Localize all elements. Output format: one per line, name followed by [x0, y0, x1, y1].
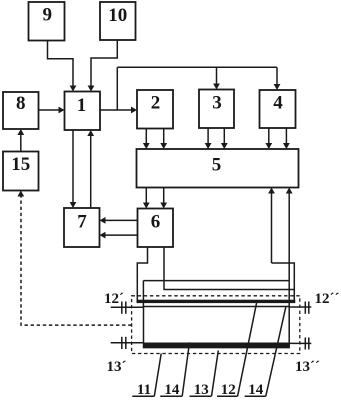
svg-text:2: 2	[151, 93, 161, 114]
dashed feedback line cell to 15	[21, 194, 132, 325]
leader 14 left	[182, 342, 189, 396]
label 14 left	[160, 382, 182, 398]
contact 12-prime lead	[111, 306, 144, 308]
block 2	[137, 90, 173, 129]
wire feeder to 3	[213, 67, 220, 89]
svg-text:9: 9	[43, 5, 53, 26]
wire 4 to 5 left	[265, 128, 272, 149]
contact 13-doubleprime lead	[289, 342, 311, 344]
leader 13	[212, 351, 219, 397]
wire 2 to 5 left	[143, 129, 150, 150]
contact 13-prime lead	[111, 342, 144, 344]
svg-text:6: 6	[151, 212, 161, 233]
wire branch down cell top-right	[288, 281, 290, 307]
wire cell to 5 left riser	[268, 188, 275, 264]
wire riser 1 to feeder	[116, 67, 118, 110]
cell body 11	[144, 307, 290, 348]
wire 3 to 5 right	[221, 128, 228, 149]
arrowhead feedback into 15	[17, 191, 24, 197]
wire 6 to 7 upper	[100, 217, 138, 224]
wire electrode branch horizontal	[143, 280, 289, 282]
wire branch down cell top-left	[142, 281, 144, 307]
wire 2 to 5 right	[160, 129, 167, 150]
block 7	[64, 208, 100, 247]
electrode 13 bottom plate	[144, 343, 290, 348]
block 10	[100, 2, 136, 40]
wire 6 to cell right	[164, 247, 294, 290]
leader 12	[238, 303, 257, 396]
block 6	[138, 209, 174, 248]
label 13	[190, 382, 212, 398]
wire 3 to 5 left	[205, 128, 212, 149]
block 5	[137, 149, 299, 188]
svg-text:8: 8	[16, 93, 26, 114]
wire 8 to 1	[39, 107, 65, 114]
svg-text:10: 10	[108, 5, 127, 26]
contact 12-prime bars	[121, 302, 123, 314]
contact 13-prime bars	[121, 337, 123, 349]
leader 11	[154, 354, 161, 397]
label 11	[132, 382, 154, 398]
svg-text:3: 3	[212, 93, 222, 114]
block 3	[199, 90, 234, 129]
block 4	[260, 90, 296, 128]
contact 13-doubleprime bars	[304, 338, 306, 350]
block 9	[29, 2, 65, 41]
wire 4 to 5 right	[283, 128, 290, 149]
wire 7 to 1	[87, 130, 94, 208]
svg-text:12´´: 12´´	[315, 291, 340, 307]
wire 6 to cell left	[137, 247, 147, 301]
label 12	[217, 382, 238, 398]
svg-text:13´´: 13´´	[295, 359, 320, 375]
dashed enclosure of cell	[132, 296, 300, 354]
wire feeder to 4	[274, 67, 281, 90]
leader 14 right	[266, 307, 286, 396]
svg-text:12´: 12´	[104, 291, 124, 307]
electrode 12 top plate	[137, 300, 296, 303]
wire 5 to 6 right	[160, 188, 167, 209]
wire 1 to 2	[100, 107, 137, 114]
wire cell to 5 right riser	[286, 188, 293, 281]
wire 9 to 1	[48, 41, 77, 92]
svg-text:7: 7	[77, 212, 87, 233]
svg-text:13´: 13´	[107, 359, 127, 375]
svg-text:4: 4	[273, 93, 283, 114]
wire 5 to 6 left	[143, 188, 150, 209]
wire 10 to 1	[88, 40, 118, 92]
svg-text:5: 5	[212, 155, 222, 176]
contact 12-doubleprime bars	[304, 302, 306, 314]
block 1	[65, 92, 101, 131]
block 15	[3, 152, 39, 191]
svg-text:15: 15	[11, 154, 30, 175]
wire 15 to 8	[17, 129, 24, 152]
contact 12-doubleprime lead	[289, 306, 311, 308]
svg-text:1: 1	[77, 95, 87, 116]
label 14 right	[245, 382, 266, 398]
wire 6 to 7 lower	[100, 232, 138, 239]
wire 1 to 7	[70, 130, 77, 208]
wire riser step to bar right end	[272, 263, 295, 301]
wire top feeder	[117, 66, 277, 68]
block 8	[3, 92, 39, 129]
